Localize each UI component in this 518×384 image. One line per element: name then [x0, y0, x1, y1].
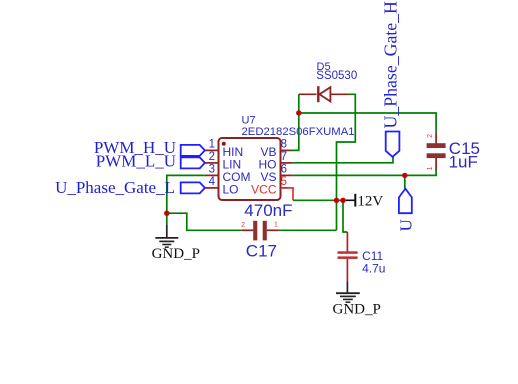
- capacitor C15 plates: [427, 143, 446, 148]
- port U_Phase_Gate_H: [386, 132, 400, 157]
- capacitor C11 bottom pin: [346, 259, 348, 282]
- svg-text:U: U: [396, 219, 415, 231]
- wire GND stem left (green tail): [166, 213, 168, 224]
- svg-text:2ED2182S06FXUMA1: 2ED2182S06FXUMA1: [242, 126, 355, 138]
- diode D5 cathode stub: [299, 93, 317, 95]
- ground GND_P left bars: [155, 237, 178, 239]
- junction node COM/GND: [164, 211, 169, 216]
- capacitor C15 pin1 stub: [435, 158, 437, 171]
- svg-text:470nF: 470nF: [244, 201, 292, 220]
- svg-text:4.7u: 4.7u: [362, 261, 385, 275]
- wire junction to C17 pin2: [167, 213, 242, 230]
- svg-text:C17: C17: [246, 241, 277, 260]
- port U_Phase_Gate_L: [181, 182, 205, 193]
- wire pin7 HO to port: [293, 157, 393, 163]
- capacitor C11 top pin: [346, 232, 348, 252]
- capacitor C17 pin2 stub: [242, 229, 254, 231]
- junction node VS/U: [402, 173, 407, 178]
- diode D5 cathode bar: [317, 86, 319, 102]
- svg-text:SS0530: SS0530: [316, 70, 357, 82]
- U7 pin1 dot marker: [222, 142, 226, 146]
- ground GND_P bottom bars: [336, 292, 360, 294]
- svg-text:GND_P: GND_P: [152, 246, 200, 262]
- wire C17 pin1 to 12V vertical: [279, 229, 337, 231]
- U7 pin 7 HO: [281, 162, 293, 164]
- svg-text:4: 4: [209, 176, 216, 188]
- svg-text:1: 1: [427, 166, 434, 170]
- U7 pin 6 VS: [281, 174, 293, 176]
- IC U7 body: [219, 138, 281, 200]
- ground GND_P bottom stem: [346, 281, 348, 293]
- power port 12V bar: [346, 199, 355, 201]
- wire 12V vertical to diode anode: [337, 94, 356, 230]
- svg-text:2: 2: [209, 151, 215, 163]
- U7 pin 5 VCC: [281, 187, 289, 189]
- svg-text:12V: 12V: [357, 194, 383, 210]
- port PWM_H_U: [181, 145, 205, 156]
- svg-text:1: 1: [274, 221, 278, 228]
- capacitor C15 pin2 stub: [435, 132, 437, 143]
- wire VS junction to port U: [404, 175, 406, 188]
- svg-text:2: 2: [241, 222, 245, 229]
- svg-text:3: 3: [209, 163, 215, 175]
- U7 pin 1 HIN: [205, 149, 219, 151]
- wire pin8 VB: [291, 113, 299, 150]
- svg-text:6: 6: [281, 163, 287, 175]
- svg-text:U7: U7: [242, 115, 256, 127]
- wire VCC to 12V: [293, 199, 346, 201]
- U7 pin 3 COM: [205, 174, 219, 176]
- junction node 12V a: [334, 198, 339, 203]
- diode D5 anode stub: [330, 93, 348, 95]
- wire 12V junction to C11: [343, 200, 347, 232]
- port U: [399, 189, 412, 214]
- wire diode cathode to VB node: [298, 94, 300, 113]
- wire pin5 VCC red segment: [288, 188, 294, 200]
- svg-text:1uF: 1uF: [449, 152, 478, 171]
- capacitor C17 plates: [253, 221, 257, 241]
- diode D5 triangle: [320, 87, 331, 101]
- svg-text:7: 7: [281, 151, 287, 163]
- junction node 12V b: [340, 198, 345, 203]
- svg-text:GND_P: GND_P: [333, 301, 381, 317]
- svg-text:U_Phase_Gate_H: U_Phase_Gate_H: [381, 1, 401, 129]
- svg-text:2: 2: [427, 134, 434, 138]
- svg-text:VCC: VCC: [251, 182, 277, 196]
- svg-text:1: 1: [209, 138, 215, 150]
- port PWM_L_U: [181, 157, 205, 168]
- U7 pin 8 VB: [281, 149, 291, 151]
- ground GND_P left stem: [166, 225, 168, 238]
- svg-text:8: 8: [281, 138, 287, 150]
- svg-text:5: 5: [281, 176, 287, 188]
- U7 pin 4 LO: [205, 187, 219, 189]
- svg-text:LO: LO: [223, 182, 239, 196]
- svg-text:PWM_L_U: PWM_L_U: [96, 151, 176, 170]
- junction node VB: [296, 110, 301, 115]
- U7 pin 2 LIN: [205, 162, 219, 164]
- capacitor C17 pin1 stub: [267, 229, 279, 231]
- wire COM pin3 to junction: [167, 175, 205, 213]
- svg-text:U_Phase_Gate_L: U_Phase_Gate_L: [55, 178, 175, 197]
- wire VB node to C15 pin2: [299, 113, 436, 132]
- capacitor C11 plates: [338, 251, 358, 254]
- wire pin6 VS to C15 pin1: [293, 170, 436, 175]
